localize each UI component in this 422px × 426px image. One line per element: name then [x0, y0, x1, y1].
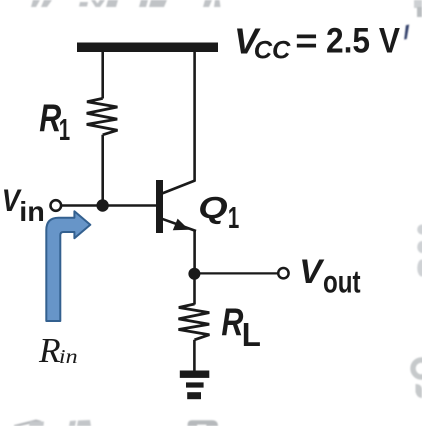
output terminal Vout (open circle)	[278, 268, 288, 278]
edge artifact top-right corner blocks	[414, 0, 422, 8]
wire RL bottom to ground	[193, 340, 196, 371]
wire node B to Vout terminal	[194, 272, 278, 274]
wire node B to RL top	[193, 274, 196, 305]
svg-text:CC: CC	[254, 37, 291, 65]
wire VCC rail to R1 top	[101, 52, 104, 99]
transistor Q1 collector diagonal	[162, 181, 195, 194]
resistor R1	[87, 98, 118, 134]
edge artifact right lower 9-shape	[413, 360, 422, 377]
VCC supply rail bar	[77, 43, 218, 53]
svg-text:L: L	[242, 316, 261, 353]
edge artifact top D	[203, 0, 221, 7]
node B junction dot (output node)	[188, 268, 200, 280]
wire collector to VCC rail	[193, 52, 196, 182]
edge artifact navy slash near 2.5 V	[404, 25, 409, 40]
svg-text:V: V	[299, 253, 325, 291]
edge artifact top B	[79, 0, 118, 7]
node A junction dot (base node)	[96, 199, 108, 211]
edge artifact right middle blobs	[417, 225, 422, 235]
wire Vin terminal to node A	[62, 204, 103, 207]
wire emitter to node B	[193, 230, 196, 274]
edge artifact top C	[139, 0, 167, 7]
svg-text:in: in	[59, 345, 78, 368]
svg-text:=: =	[295, 21, 317, 60]
svg-text:1: 1	[228, 200, 239, 235]
edge artifact bottom-left blocks	[69, 420, 91, 426]
svg-text:1: 1	[59, 112, 70, 147]
resistor RL	[179, 304, 210, 340]
svg-text:R: R	[38, 330, 61, 370]
edge artifact bottom-left wedge	[14, 420, 42, 426]
ground symbol bar 2	[186, 382, 204, 387]
edge artifact top A	[31, 0, 52, 7]
wire R1 bottom to input node	[101, 135, 104, 206]
edge artifact bottom blob under ground	[188, 420, 219, 426]
svg-text:R: R	[221, 300, 244, 343]
svg-text:out: out	[323, 263, 361, 299]
transistor Q1 emitter arrowhead	[173, 219, 189, 231]
ground symbol bar 3	[187, 392, 201, 399]
svg-text:in: in	[19, 197, 45, 227]
wire node A to transistor base	[103, 204, 156, 207]
svg-text:2.5 V: 2.5 V	[326, 22, 401, 61]
transistor Q1 emitter diagonal	[162, 219, 196, 231]
transistor Q1 base bar	[156, 180, 163, 233]
svg-text:Q: Q	[198, 191, 228, 225]
ground symbol bar 1	[180, 371, 210, 378]
Rin input-resistance arrow (blue bent arrow)	[46, 211, 90, 321]
input terminal Vin (open circle)	[51, 200, 62, 211]
